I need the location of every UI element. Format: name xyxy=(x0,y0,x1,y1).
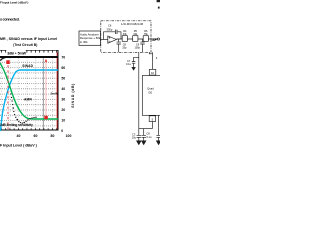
svg-text:70: 70 xyxy=(61,55,65,59)
svg-text:100: 100 xyxy=(66,134,72,138)
svg-text:60: 60 xyxy=(61,66,65,70)
svg-text:330p: 330p xyxy=(107,27,113,31)
svg-text:SINAD: SINAD xyxy=(22,64,33,68)
svg-text:3dB limiting sensitivity: 3dB limiting sensitivity xyxy=(0,123,33,127)
svg-text:20: 20 xyxy=(61,108,65,112)
svg-text:100p: 100p xyxy=(135,47,141,50)
svg-text:5mW: 5mW xyxy=(51,92,58,96)
svg-text:OE: OE xyxy=(148,91,152,95)
svg-text:10: 10 xyxy=(61,119,65,123)
svg-text:MR , SINAD versus IF Input Lev: MR , SINAD versus IF Input Level xyxy=(0,37,57,41)
svg-text:Quad: Quad xyxy=(147,87,154,91)
svg-text:30: 30 xyxy=(61,98,65,102)
svg-text:40: 40 xyxy=(17,134,21,138)
svg-text:10: 10 xyxy=(151,71,155,75)
svg-text:33p: 33p xyxy=(122,47,127,50)
svg-text:1/2LMC6482AIM: 1/2LMC6482AIM xyxy=(121,22,144,26)
svg-text:40: 40 xyxy=(61,87,65,91)
svg-text:0.1u: 0.1u xyxy=(126,62,132,66)
svg-text:3: 3 xyxy=(156,56,158,60)
svg-text:in 30k: in 30k xyxy=(80,40,88,44)
svg-text:AF: AF xyxy=(152,38,156,42)
svg-text:3dB + 5mW: 3dB + 5mW xyxy=(7,52,26,56)
svg-text:50: 50 xyxy=(61,76,65,80)
svg-text:0.1u: 0.1u xyxy=(146,135,152,139)
svg-text:(Test Circuit B): (Test Circuit B) xyxy=(13,43,37,47)
svg-text:C8: C8 xyxy=(146,131,150,135)
svg-text:0: 0 xyxy=(61,129,63,133)
svg-text:SINAD (dB): SINAD (dB) xyxy=(71,83,75,108)
svg-text:F Input Level ( dBuV ): F Input Level ( dBuV ) xyxy=(0,143,38,147)
svg-text:80: 80 xyxy=(51,134,55,138)
svg-text:10u: 10u xyxy=(132,136,137,140)
svg-text:s connected.: s connected. xyxy=(0,18,20,22)
svg-text:C6: C6 xyxy=(108,23,112,27)
svg-text:AMR: AMR xyxy=(24,97,32,101)
svg-text:60: 60 xyxy=(34,134,38,138)
svg-text:F Input Level ( dBuV ): F Input Level ( dBuV ) xyxy=(0,0,28,4)
